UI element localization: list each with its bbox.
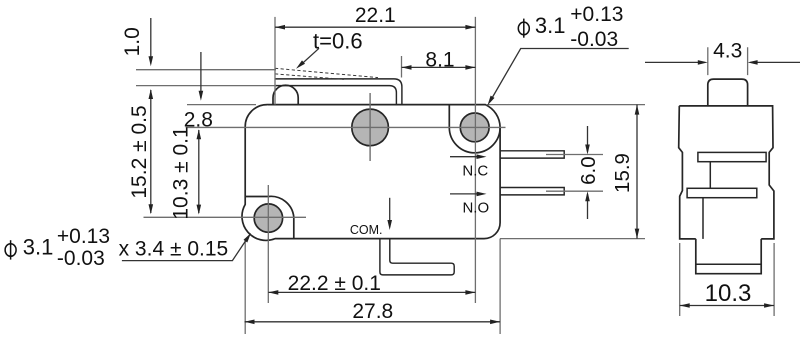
svg-text:x 3.4 ± 0.15: x 3.4 ± 0.15 — [119, 238, 229, 261]
svg-text:-0.03: -0.03 — [57, 247, 105, 270]
svg-text:10.3: 10.3 — [705, 280, 752, 307]
svg-text:+0.13: +0.13 — [570, 3, 623, 26]
N.O terminal center line — [546, 190, 603, 192]
mounting hole bottom left — [254, 204, 282, 232]
svg-text:22.1: 22.1 — [355, 4, 396, 27]
extension line body bottom right — [500, 238, 645, 240]
svg-text:+0.13: +0.13 — [57, 225, 110, 248]
extension lines 4.3 — [708, 47, 748, 75]
svg-text:-0.03: -0.03 — [570, 28, 618, 51]
dimension 6.0 arrows — [587, 126, 589, 219]
switch body outline (front view) — [242, 105, 500, 241]
svg-text:8.1: 8.1 — [425, 49, 454, 72]
center line horizontal through top holes — [186, 126, 506, 128]
svg-text:6.0: 6.0 — [577, 156, 600, 185]
mounting hole top right — [460, 113, 489, 142]
dimension 1.0 arrow — [150, 18, 152, 64]
top-right mounting boss arc — [449, 105, 500, 153]
lever arm (pressed position) — [275, 79, 402, 105]
extension line body right lower — [499, 239, 501, 334]
svg-text:15.2 ± 0.5: 15.2 ± 0.5 — [128, 105, 151, 198]
svg-text:3.1: 3.1 — [535, 13, 566, 38]
side view lower terminal strip — [687, 188, 757, 197]
N.C terminal center line — [546, 154, 603, 156]
dimension 4.3 arrows — [645, 61, 800, 63]
side view body — [679, 106, 774, 239]
lever free-position dashed line upper — [275, 68, 378, 77]
mounting hole top middle — [352, 109, 389, 146]
svg-text:27.8: 27.8 — [352, 300, 393, 323]
svg-text:COM.: COM. — [350, 223, 383, 237]
center line horizontal through bottom-left hole — [144, 216, 307, 218]
dimension 10.3 side line — [680, 305, 774, 307]
side view strip connector line — [709, 162, 711, 189]
N.O indicator arrow — [450, 193, 483, 195]
COM terminal (L-shaped) — [380, 239, 454, 275]
svg-text:10.3 ± 0.1: 10.3 ± 0.1 — [169, 126, 192, 219]
side view upper terminal strip — [698, 152, 766, 161]
leader top-right hole label — [490, 49, 629, 102]
center line vertical middle hole — [369, 93, 371, 161]
dimension 22.2±0.1 line — [268, 291, 475, 293]
svg-text:N.O: N.O — [462, 200, 489, 217]
extension line lever bend right — [401, 56, 403, 78]
extension line lever free top left — [136, 69, 276, 71]
dimension 22.1 line — [275, 26, 475, 28]
side view base block — [696, 239, 761, 274]
COM indicator arrow — [389, 198, 391, 227]
extension line vertical through top-right hole — [474, 17, 476, 303]
label phi 3.1 top right — [518, 22, 529, 35]
dimension 2.8 arrow — [200, 52, 202, 98]
N.C terminal — [500, 151, 564, 158]
N.O terminal — [500, 188, 564, 195]
extension lines 10.3 side — [680, 243, 774, 316]
svg-text:1.0: 1.0 — [121, 27, 144, 56]
dimension 27.8 line — [245, 321, 501, 323]
side view plunger button — [708, 79, 748, 106]
svg-text:3.1: 3.1 — [23, 234, 54, 259]
N.C indicator arrow — [450, 156, 483, 158]
svg-text:t=0.6: t=0.6 — [313, 29, 363, 54]
dimension 10.3±0.1 line — [198, 130, 200, 213]
dimension 15.9 line — [636, 105, 638, 239]
svg-text:4.3: 4.3 — [713, 40, 742, 63]
bottom-left mounting boss inner notch — [245, 196, 294, 238]
extension line lever left end — [274, 17, 276, 105]
extension line vertical through bottom-left hole — [267, 185, 269, 303]
lever free-position dashed line lower — [275, 74, 344, 80]
actuator bump on body top — [273, 85, 298, 104]
leader t=0.6 — [300, 48, 320, 66]
dimension 8.1 line — [402, 66, 476, 68]
label phi 3.1 bottom left — [5, 244, 16, 257]
leader bottom-left hole label — [122, 238, 248, 261]
extension line body left lower — [244, 239, 246, 334]
extension line body top right — [486, 104, 645, 106]
extension line lever bottom left — [136, 85, 276, 87]
svg-text:22.2 ± 0.1: 22.2 ± 0.1 — [288, 272, 381, 295]
dimension 15.2 line — [150, 90, 152, 213]
svg-text:15.9: 15.9 — [611, 153, 634, 193]
svg-text:N.C: N.C — [462, 163, 488, 180]
side view base inner line — [696, 263, 761, 265]
extension line body top left — [187, 104, 256, 106]
side view lower internal line — [702, 198, 704, 239]
